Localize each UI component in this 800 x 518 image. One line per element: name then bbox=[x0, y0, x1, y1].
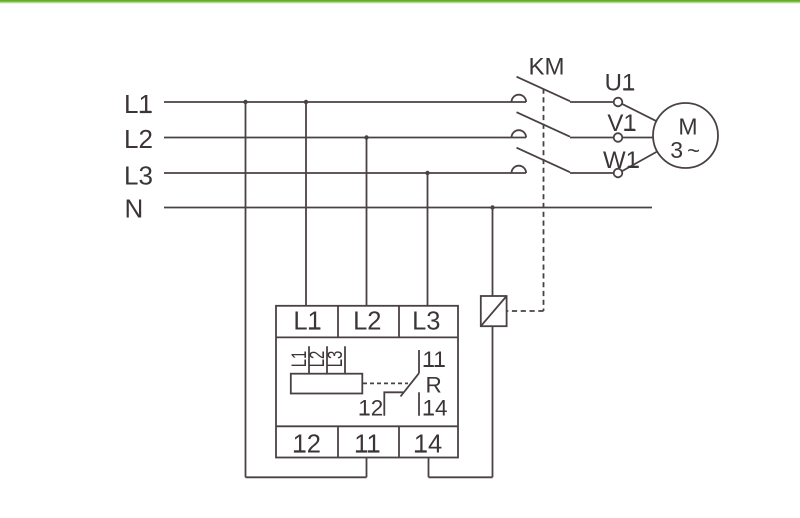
junction node on N at coil branch bbox=[490, 205, 494, 209]
svg-text:L2: L2 bbox=[353, 308, 381, 336]
top green banner bbox=[0, 0, 800, 2]
svg-text:L1: L1 bbox=[293, 308, 321, 336]
contactor KM contact pole 2 bbox=[512, 130, 527, 137]
svg-text:L3: L3 bbox=[322, 351, 346, 368]
contactor KM contact pole 3 bbox=[512, 166, 527, 173]
svg-text:R: R bbox=[426, 373, 442, 398]
wire coil bottom down bbox=[492, 326, 494, 477]
svg-text:V1: V1 bbox=[607, 110, 636, 137]
svg-text:L2: L2 bbox=[124, 124, 153, 154]
svg-text:W1: W1 bbox=[603, 147, 639, 174]
svg-text:M: M bbox=[678, 114, 697, 140]
wire rail N bbox=[164, 207, 652, 209]
wire rail L2 bbox=[164, 137, 526, 139]
wire U1 to motor bbox=[622, 104, 656, 121]
motor terminal U1 bbox=[614, 98, 623, 107]
wire V1 to motor bbox=[622, 137, 653, 139]
wire rail L1 bbox=[164, 101, 526, 103]
wire drop B (L1 to device L1) bbox=[305, 102, 307, 306]
dashed mechanical link of KM bbox=[507, 89, 544, 312]
svg-text:KM: KM bbox=[529, 54, 565, 81]
measuring unit box bbox=[291, 374, 363, 394]
svg-text:N: N bbox=[125, 194, 144, 224]
motor M circle bbox=[653, 103, 718, 168]
digit foot serif marks bbox=[140, 88, 639, 452]
dashed actuation link to contact R bbox=[363, 382, 408, 384]
junction node on L1 at drop A bbox=[243, 100, 247, 104]
motor terminal W1 bbox=[614, 169, 623, 178]
wire bottom left loop to terminal 11 bbox=[246, 458, 367, 478]
svg-text:L3: L3 bbox=[412, 308, 440, 336]
wire W1 to motor bbox=[622, 152, 657, 172]
svg-text:L1: L1 bbox=[124, 89, 153, 119]
phase monitor relay body bbox=[276, 306, 458, 458]
junction node on L2 at drop C bbox=[364, 135, 368, 139]
svg-text:11: 11 bbox=[423, 347, 446, 372]
junction node on L1 at drop B bbox=[304, 100, 308, 104]
junction node on L3 at drop D bbox=[425, 171, 429, 175]
wire drop C (L2 to device L2) bbox=[366, 138, 368, 306]
motor terminal V1 bbox=[614, 133, 623, 142]
contactor KM contact pole 1 bbox=[512, 95, 527, 102]
svg-text:~: ~ bbox=[687, 138, 700, 163]
svg-text:14: 14 bbox=[414, 431, 442, 459]
relay contact R bbox=[384, 350, 419, 416]
svg-text:12: 12 bbox=[293, 431, 321, 459]
contactor coil KM bbox=[481, 296, 507, 326]
svg-text:L3: L3 bbox=[124, 161, 153, 191]
svg-text:12: 12 bbox=[358, 396, 383, 421]
wire bottom right terminal 14 to coil branch bbox=[429, 458, 493, 478]
wire drop A (L1 to bottom loop) bbox=[245, 102, 247, 477]
wire rail L3 bbox=[164, 172, 526, 174]
svg-text:3: 3 bbox=[670, 137, 683, 163]
svg-text:11: 11 bbox=[354, 431, 380, 459]
wire N to coil top bbox=[492, 208, 494, 297]
svg-text:U1: U1 bbox=[605, 69, 636, 96]
wire drop D (L3 to device L3) bbox=[427, 173, 429, 306]
svg-text:14: 14 bbox=[423, 396, 448, 421]
measuring unit input ticks bbox=[309, 346, 345, 373]
